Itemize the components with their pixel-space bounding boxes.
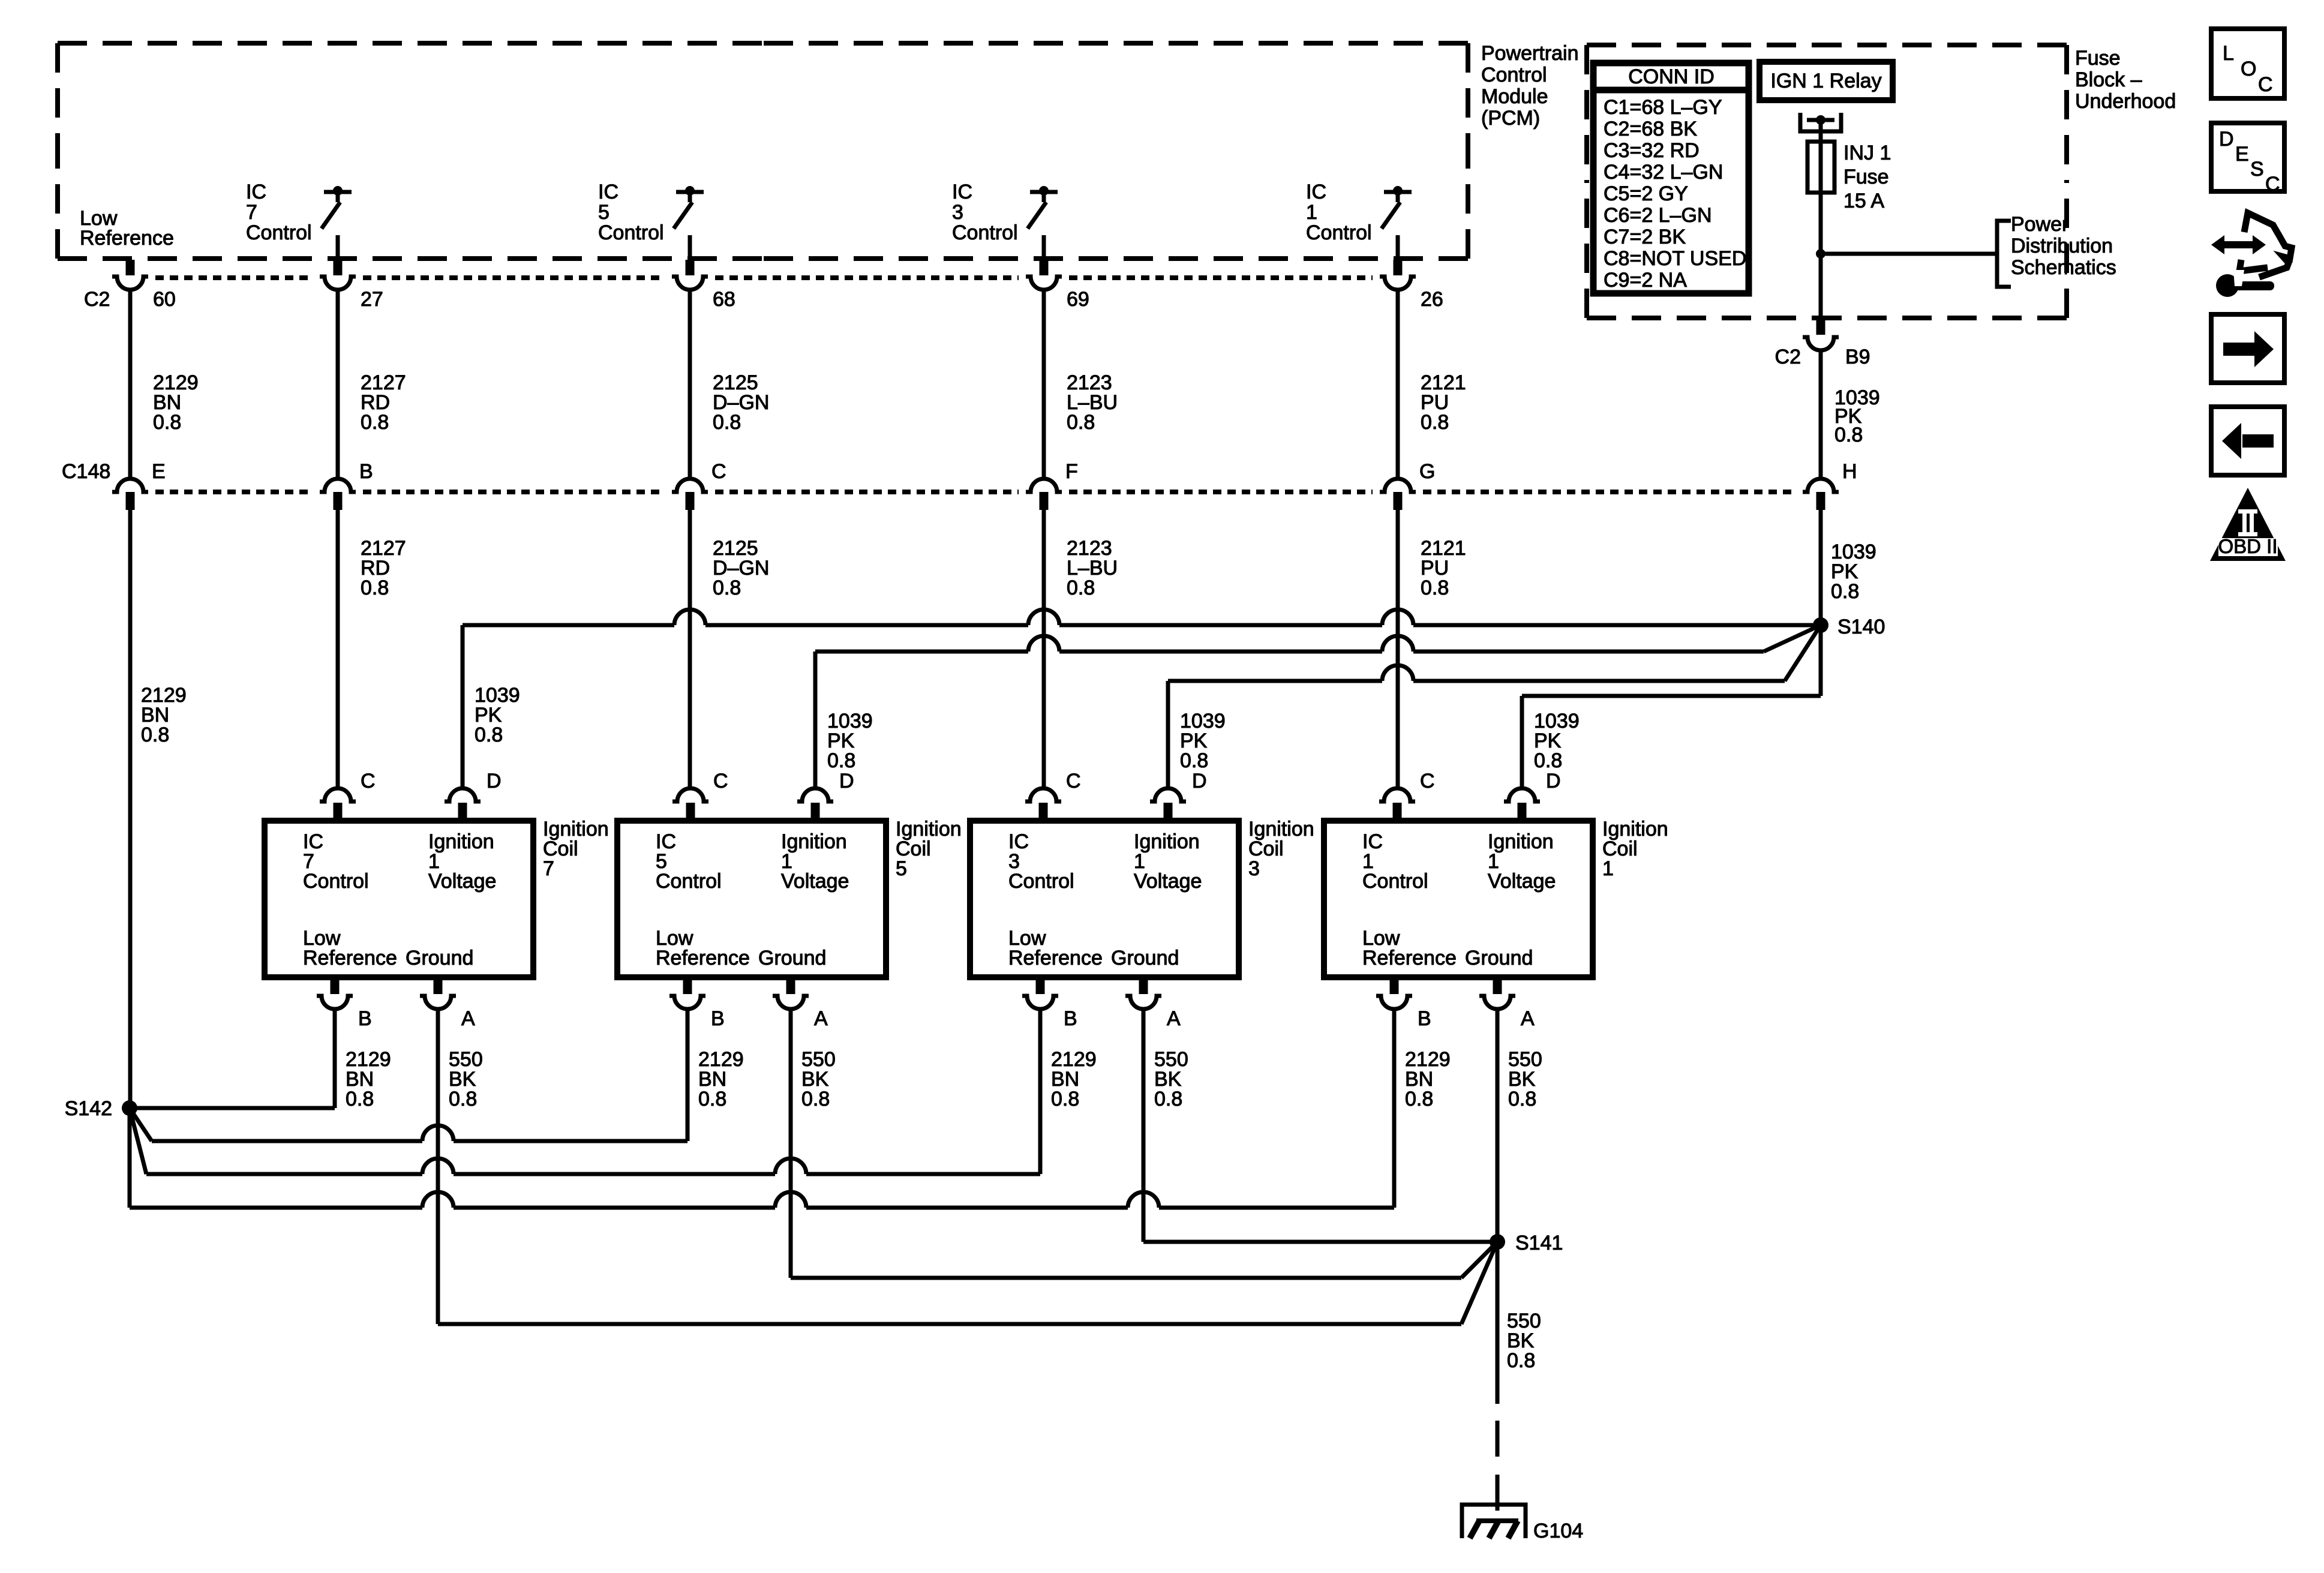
svg-text:G: G (1419, 460, 1435, 483)
svg-text:C8=NOT USED: C8=NOT USED (1604, 247, 1746, 270)
svg-text:Powertrain: Powertrain (1481, 42, 1579, 65)
ignition 1 voltage branch to coil 7 pin D (463, 623, 674, 628)
icon LOC box (2211, 29, 2284, 98)
wire ground coil 3 pin A to splice S141 (1142, 1009, 1146, 1242)
ground G104 symbol (1462, 1505, 1526, 1538)
svg-text:Voltage: Voltage (1134, 870, 1202, 893)
wire low reference coil 1 pin B to splice S142 (1392, 1009, 1397, 1208)
C2 terminal pin 69 (1026, 277, 1062, 290)
svg-text:Control: Control (1008, 870, 1074, 893)
ignition coil 1 pin B terminal (1390, 977, 1399, 994)
svg-text:0.8: 0.8 (141, 724, 169, 746)
svg-text:B: B (1418, 1007, 1431, 1030)
ignition coil 7 pin A terminal (434, 977, 443, 994)
wire 2123 L–BU from C2 to C148 (1042, 290, 1046, 479)
connector C2 pin B9 terminal on fuse block output (1816, 319, 1825, 335)
wire 2125 D–GN from C148 to ignition coil (688, 510, 692, 788)
ignition coil 7 connector pin C terminal (320, 788, 356, 801)
C2 terminal pin 68 (672, 277, 708, 290)
switch IC 7 Control inside PCM (324, 190, 352, 194)
svg-text:Underhood: Underhood (2075, 90, 2176, 113)
svg-text:(PCM): (PCM) (1481, 107, 1540, 130)
C148 terminal pin C (672, 479, 708, 492)
svg-text:D: D (839, 770, 854, 792)
ignition coil 3 box (970, 821, 1239, 977)
ignition coil 7 pin B terminal (331, 977, 340, 994)
svg-text:0.8: 0.8 (1154, 1088, 1182, 1110)
C148 terminal pin G (1380, 479, 1416, 492)
switch IC 3 Control inside PCM (1030, 190, 1058, 194)
svg-text:Schematics: Schematics (2011, 256, 2116, 279)
svg-text:D: D (2219, 128, 2234, 151)
svg-text:B: B (711, 1007, 725, 1030)
wire 2129 BN from C2 to C148 (128, 290, 133, 479)
svg-text:Reference: Reference (1362, 947, 1457, 969)
icon DESC box (2211, 123, 2284, 191)
ignition coil 5 pin B terminal (683, 977, 692, 994)
svg-text:C1=68 L–GY: C1=68 L–GY (1604, 96, 1722, 119)
wire 2121 PU from C148 to ignition coil (1396, 510, 1400, 788)
svg-text:Control: Control (598, 221, 664, 244)
svg-text:A: A (814, 1007, 828, 1030)
svg-text:IC: IC (598, 181, 618, 203)
svg-text:Control: Control (656, 870, 722, 893)
wire ground coil 1 pin A to splice S141 (1496, 1009, 1500, 1242)
svg-text:0.8: 0.8 (698, 1088, 726, 1110)
ignition coil 5 box (617, 821, 886, 977)
ignition coil 5 connector pin C terminal (672, 788, 708, 801)
svg-text:C: C (361, 770, 376, 792)
svg-text:0.8: 0.8 (1067, 577, 1095, 599)
svg-text:INJ 1: INJ 1 (1843, 142, 1891, 164)
svg-text:26: 26 (1421, 288, 1443, 311)
svg-text:1: 1 (1306, 201, 1317, 224)
svg-text:Ground: Ground (1111, 947, 1179, 969)
svg-text:Distribution: Distribution (2011, 235, 2113, 257)
svg-text:0.8: 0.8 (361, 411, 389, 434)
svg-text:F: F (1065, 460, 1078, 483)
svg-text:0.8: 0.8 (1180, 749, 1208, 772)
svg-text:A: A (461, 1007, 475, 1030)
icon wrench (2216, 274, 2239, 297)
svg-text:S140: S140 (1837, 616, 1885, 638)
svg-text:C: C (2265, 173, 2280, 196)
wire from relay through INJ 1 fuse (1819, 122, 1823, 318)
svg-text:Reference: Reference (303, 947, 397, 969)
svg-text:Ground: Ground (1465, 947, 1533, 969)
off-page bracket Power Distribution Schematics (1997, 221, 2011, 287)
svg-text:0.8: 0.8 (1834, 424, 1863, 446)
svg-text:Ground: Ground (758, 947, 826, 969)
wire 2121 PU from C2 to C148 (1396, 290, 1400, 479)
svg-text:C5=2 GY: C5=2 GY (1604, 182, 1688, 205)
svg-text:0.8: 0.8 (1051, 1088, 1079, 1110)
wire 2123 L–BU from C148 to ignition coil (1042, 510, 1046, 788)
Fuse Block - Underhood dashed box (1587, 43, 1827, 47)
svg-text:0.8: 0.8 (801, 1088, 830, 1110)
svg-text:3: 3 (1248, 857, 1260, 880)
C148 terminal pin F (1026, 479, 1062, 492)
icon diagnostic double arrow (2220, 241, 2257, 248)
wire 2127 RD from C2 to C148 (336, 290, 340, 479)
svg-text:C6=2 L–GN: C6=2 L–GN (1604, 204, 1712, 227)
svg-text:0.8: 0.8 (361, 577, 389, 599)
svg-text:0.8: 0.8 (153, 411, 181, 434)
svg-text:7: 7 (246, 201, 257, 224)
svg-text:Control: Control (303, 870, 369, 893)
svg-text:Control: Control (246, 221, 312, 244)
wire 2129 BN from C148 pin E down to splice S142 (128, 510, 133, 1108)
ignition coil 3 pin B terminal (1036, 977, 1045, 994)
svg-text:Control: Control (1362, 870, 1428, 893)
svg-text:0.8: 0.8 (346, 1088, 374, 1110)
ignition coil 3 connector pin C terminal (1025, 788, 1061, 801)
svg-text:1: 1 (1602, 857, 1614, 880)
svg-text:D: D (1192, 770, 1207, 792)
svg-text:Voltage: Voltage (1488, 870, 1556, 893)
C2 terminal pin 60 (112, 277, 148, 290)
svg-text:69: 69 (1067, 288, 1089, 311)
svg-text:S142: S142 (65, 1097, 112, 1120)
ignition coil 1 connector pin D terminal (1504, 788, 1540, 801)
svg-text:60: 60 (153, 288, 176, 311)
svg-text:O: O (2241, 58, 2256, 80)
IGN 1 Relay box (1759, 62, 1893, 100)
svg-text:B: B (1064, 1007, 1077, 1030)
icon OBD II triangle (2210, 488, 2286, 561)
svg-text:G104: G104 (1533, 1520, 1583, 1542)
ignition 1 voltage branch to coil 3 pin D (1168, 679, 1382, 683)
svg-text:3: 3 (952, 201, 963, 224)
svg-text:C: C (711, 460, 726, 483)
svg-text:0.8: 0.8 (1067, 411, 1095, 434)
ignition coil 5 connector pin D terminal (797, 788, 833, 801)
svg-text:0.8: 0.8 (1507, 1349, 1535, 1372)
C2 terminal pin 26 (1380, 277, 1416, 290)
svg-text:E: E (2235, 143, 2249, 166)
svg-text:S141: S141 (1515, 1232, 1563, 1254)
switch IC 1 Control inside PCM (1384, 190, 1412, 194)
ignition coil 7 connector pin D terminal (445, 788, 481, 801)
ignition coil 1 box (1324, 821, 1593, 977)
svg-text:68: 68 (713, 288, 735, 311)
wire 1039 PK from C148 pin H to splice S140 (1819, 510, 1823, 625)
svg-text:B9: B9 (1845, 346, 1870, 368)
wire low reference coil 7 pin B to splice S142 (333, 1009, 337, 1108)
svg-text:H: H (1842, 460, 1857, 483)
wire ground coil 7 pin A to splice S141 (436, 1009, 440, 1324)
svg-text:0.8: 0.8 (1831, 580, 1859, 603)
svg-text:D: D (1546, 770, 1561, 792)
ignition coil 1 pin A terminal (1493, 977, 1502, 994)
svg-text:IC: IC (246, 181, 266, 203)
fuse INJ 1 15 A (1807, 142, 1834, 193)
wire 550 BK from S141 to ground G104 (1496, 1242, 1500, 1404)
svg-text:7: 7 (543, 857, 554, 880)
svg-text:C4=32 L–GN: C4=32 L–GN (1604, 161, 1723, 184)
splice S142 (122, 1100, 137, 1116)
svg-text:Fuse: Fuse (2075, 47, 2121, 70)
svg-text:A: A (1167, 1007, 1181, 1030)
splice S141 (1490, 1234, 1505, 1250)
wire 2125 D–GN from C2 to C148 (688, 290, 692, 479)
connector row C2 dotted line (155, 275, 313, 280)
svg-text:IC: IC (952, 181, 972, 203)
svg-text:Control: Control (952, 221, 1018, 244)
svg-text:Module: Module (1481, 85, 1548, 108)
svg-text:27: 27 (361, 288, 383, 311)
svg-text:0.8: 0.8 (713, 577, 741, 599)
wire low reference coil 3 pin B to splice S142 (1038, 1009, 1043, 1174)
svg-text:C148: C148 (62, 460, 110, 483)
svg-text:0.8: 0.8 (449, 1088, 477, 1110)
ignition 1 voltage branch to coil 1 pin D (1522, 694, 1821, 698)
svg-text:S: S (2250, 158, 2264, 181)
svg-text:C7=2 BK: C7=2 BK (1604, 226, 1686, 248)
svg-text:C: C (713, 770, 728, 792)
svg-text:Reference: Reference (80, 227, 174, 250)
svg-text:C: C (1420, 770, 1435, 792)
svg-text:C9=2 NA: C9=2 NA (1604, 269, 1687, 292)
icon diagnostic connector outline (2244, 213, 2292, 277)
wire to Power Distribution Schematics (1821, 252, 1997, 256)
svg-text:Voltage: Voltage (428, 870, 496, 893)
svg-text:C: C (2258, 73, 2273, 96)
svg-text:0.8: 0.8 (713, 411, 741, 434)
svg-text:C2: C2 (1775, 346, 1801, 368)
CONN ID table (1593, 63, 1749, 293)
svg-text:Power: Power (2011, 213, 2068, 236)
svg-text:E: E (152, 460, 166, 483)
junction to power distribution (1816, 249, 1825, 259)
ignition coil 5 pin A terminal (786, 977, 795, 994)
connector row C148 dotted line (155, 490, 313, 494)
C2 terminal pin 27 (320, 277, 356, 290)
svg-text:0.8: 0.8 (1508, 1088, 1536, 1110)
svg-text:Voltage: Voltage (781, 870, 849, 893)
svg-text:Fuse: Fuse (1843, 166, 1889, 188)
svg-text:5: 5 (896, 857, 907, 880)
C148 terminal pin E (112, 479, 148, 492)
svg-text:OBD II: OBD II (2218, 535, 2277, 557)
wire ground coil 5 pin A to splice S141 (789, 1009, 793, 1278)
relay contact symbol (1800, 113, 1841, 131)
C148 terminal pin H (1803, 479, 1839, 492)
ignition coil 3 pin A terminal (1139, 977, 1148, 994)
wire low reference coil 5 pin B to splice S142 (686, 1009, 690, 1141)
svg-text:Reference: Reference (656, 947, 750, 969)
svg-text:CONN ID: CONN ID (1628, 65, 1715, 88)
ignition coil 1 connector pin C terminal (1379, 788, 1415, 801)
PCM module dashed box (58, 41, 763, 46)
splice S140 (1813, 617, 1828, 633)
icon back arrow box (2211, 407, 2284, 475)
ignition coil 3 connector pin D terminal (1150, 788, 1186, 801)
ignition coil 7 box (265, 821, 533, 977)
svg-text:D: D (487, 770, 502, 792)
ignition 1 voltage branch to coil 5 pin D (815, 650, 1028, 654)
C148 terminal pin B (320, 479, 356, 492)
svg-text:0.8: 0.8 (1534, 749, 1562, 772)
svg-text:C2=68 BK: C2=68 BK (1604, 118, 1697, 140)
svg-text:L: L (2223, 42, 2234, 65)
svg-text:IGN 1 Relay: IGN 1 Relay (1770, 70, 1881, 92)
svg-text:15 A: 15 A (1843, 190, 1884, 212)
svg-text:Control: Control (1306, 221, 1372, 244)
svg-text:A: A (1521, 1007, 1535, 1030)
svg-text:5: 5 (598, 201, 609, 224)
svg-text:Reference: Reference (1008, 947, 1103, 969)
svg-text:Ground: Ground (406, 947, 473, 969)
svg-text:Control: Control (1481, 64, 1547, 86)
svg-text:0.8: 0.8 (827, 749, 855, 772)
svg-text:B: B (358, 1007, 372, 1030)
svg-text:C: C (1066, 770, 1081, 792)
svg-text:Block –: Block – (2075, 68, 2142, 91)
svg-text:IC: IC (1306, 181, 1326, 203)
svg-text:0.8: 0.8 (1405, 1088, 1433, 1110)
svg-text:0.8: 0.8 (475, 724, 503, 746)
svg-text:0.8: 0.8 (1421, 577, 1449, 599)
svg-text:B: B (359, 460, 373, 483)
svg-text:C2: C2 (84, 288, 110, 311)
switch IC 5 Control inside PCM (676, 190, 704, 194)
svg-text:C3=32 RD: C3=32 RD (1604, 139, 1700, 162)
svg-text:0.8: 0.8 (1421, 411, 1449, 434)
icon forward arrow box (2211, 314, 2284, 383)
wire 1039 PK from B9 to C148 pin H (1819, 350, 1823, 479)
wire 2127 RD from C148 to ignition coil (336, 510, 340, 788)
